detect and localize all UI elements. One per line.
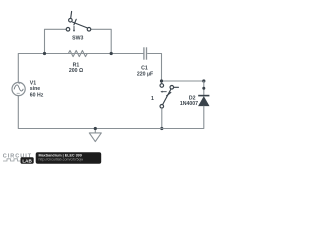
voltage source V1: [12, 82, 25, 95]
wire: stub down to switch top terminal: [161, 81, 163, 84]
watermark: CircuitLab logo: [3, 154, 34, 164]
svg-text:220 µF: 220 µF: [137, 71, 153, 77]
diode D2: [198, 95, 209, 97]
wire: diode stem top: [203, 81, 205, 95]
svg-text:sine: sine: [30, 86, 40, 92]
node: dot on diode stem: [202, 87, 205, 90]
svg-text:60 Hz: 60 Hz: [30, 92, 44, 98]
switch SW3: [66, 12, 91, 33]
node: junction dot switch bottom on bottom rail: [160, 127, 163, 130]
node: junction dot at C1/switch/diode node: [160, 79, 163, 82]
watermark: attribution badge: [36, 152, 102, 163]
wire: switch bottom to bottom rail: [161, 108, 163, 128]
resistor R1: [68, 51, 87, 57]
svg-text:LAB: LAB: [22, 158, 32, 163]
wire: diode bottom, bottom rail, back to V1: [18, 96, 204, 129]
svg-text:1: 1: [151, 96, 154, 102]
switch 1 (vertical pushbutton): [160, 84, 179, 108]
wire: node row horizontal to diode branch: [162, 80, 204, 82]
ground: [94, 129, 96, 133]
svg-text:http://circuitlab.com/c/br5qw: http://circuitlab.com/c/br5qw: [39, 157, 84, 161]
wire: V1 top riser and main top rail to C1 left plate: [18, 54, 143, 83]
svg-text:1N4007: 1N4007: [180, 101, 198, 107]
svg-text:SW3: SW3: [72, 36, 83, 42]
svg-text:200 Ω: 200 Ω: [69, 68, 83, 74]
wire: C1 right to corner down to node row: [147, 54, 161, 82]
capacitor C1: [144, 47, 147, 59]
node: junction dot SW3 left branch on main rail: [43, 52, 46, 55]
wire: SW3 right branch riser: [91, 29, 111, 53]
node: junction dot at ground: [94, 127, 97, 130]
node: junction dot SW3 right branch on main rail: [110, 52, 113, 55]
node: corner dot above diode: [202, 79, 205, 82]
wire: SW3 left branch riser: [45, 29, 67, 53]
